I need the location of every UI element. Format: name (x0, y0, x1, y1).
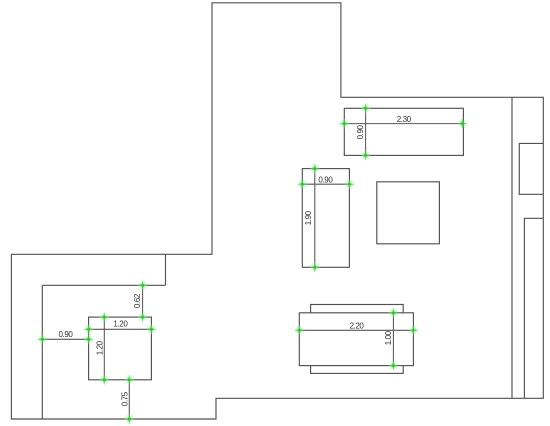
dimension line 1.90 vertical (table B) (314, 169, 316, 268)
square table E (1.20 x 1.20) bottom left (89, 317, 152, 380)
snap marker 0.90 right (table B) (344, 179, 355, 190)
dimension line 2.30 (344, 123, 463, 125)
snap marker 2.30 left (339, 118, 350, 129)
snap marker 0.62 top (wall) (137, 280, 148, 291)
snap marker 1.20 horizontal right (square E) (146, 324, 157, 335)
sofa D seat rectangle (2.20 x 1.00, white filled) (299, 313, 413, 366)
interior wall vertical connector x=165.5 (165, 254, 167, 285)
svg-text:0.90: 0.90 (59, 330, 74, 339)
snap marker 1.20 vertical top (square E) (99, 312, 110, 323)
snap marker 2.20 left (sofa) (294, 325, 305, 336)
snap marker 1.20 horizontal left (square E) (83, 324, 94, 335)
dimension line 1.20 horizontal (square E) (89, 328, 152, 330)
snap marker 1.20 vertical bottom (square E) (99, 374, 110, 385)
snap marker 0.75 top (square E) (124, 374, 135, 385)
dimension line 0.90 horizontal (wall to square E) (42, 338, 88, 340)
svg-text:0.90: 0.90 (356, 124, 365, 139)
snap marker 2.20 right (sofa) (408, 325, 419, 336)
snap marker 0.90 left end (wall) (37, 334, 48, 345)
right-side cabinet box 2 (tall) (524, 218, 543, 398)
dimension line 0.90 horizontal (table B) (302, 183, 349, 185)
snap marker 0.90 top (table A) (360, 103, 371, 114)
square table C (377, 182, 440, 244)
right-side cabinet box 1 (519, 143, 543, 194)
snap marker 2.30 right (457, 118, 468, 129)
svg-text:1.20: 1.20 (113, 320, 128, 329)
svg-text:1.00: 1.00 (384, 330, 393, 345)
svg-text:2.20: 2.20 (350, 321, 365, 330)
snap marker 1.90 bottom (table B) (309, 262, 320, 273)
svg-text:1.20: 1.20 (96, 340, 105, 355)
dimension line 0.62 vertical (wall to square E) (142, 285, 144, 317)
snap marker 1.00 top (sofa) (388, 307, 399, 318)
svg-text:1.90: 1.90 (304, 210, 313, 225)
dimension line 0.90 vertical (table A) (365, 108, 367, 155)
snap marker 0.90 right end (square E) (83, 334, 94, 345)
interior wall left inner vertical face x=42.3 (41, 285, 43, 419)
interior wall horizontal inner face y=285.3 (42, 284, 165, 286)
dimension line 0.75 vertical (square E to wall) (128, 380, 130, 419)
snap marker 1.90 top (table B) (309, 163, 320, 174)
dimension line 2.20 (sofa) (299, 329, 413, 331)
dimension line 1.00 vertical (sofa) (392, 313, 394, 366)
dimension line 1.20 vertical (square E) (103, 317, 105, 380)
svg-text:0.90: 0.90 (318, 175, 333, 184)
svg-text:0.62: 0.62 (133, 293, 142, 308)
snap marker 0.90 bottom (table A) (360, 150, 371, 161)
interior wall right inner vertical face x=512 (511, 97, 513, 398)
snap marker 1.00 bottom (sofa) (388, 360, 399, 371)
svg-text:2.30: 2.30 (397, 115, 412, 124)
sofa D back rectangle (tall) (311, 305, 404, 374)
svg-text:0.75: 0.75 (121, 391, 130, 406)
snap marker 0.90 left (table B) (297, 179, 308, 190)
snap marker 0.62 bottom (square E) (137, 312, 148, 323)
table A (2.30 x 0.90) top right (344, 108, 463, 155)
table B (0.90 x 1.90) vertical (302, 169, 349, 268)
snap marker 0.75 bottom (wall) (124, 414, 135, 425)
